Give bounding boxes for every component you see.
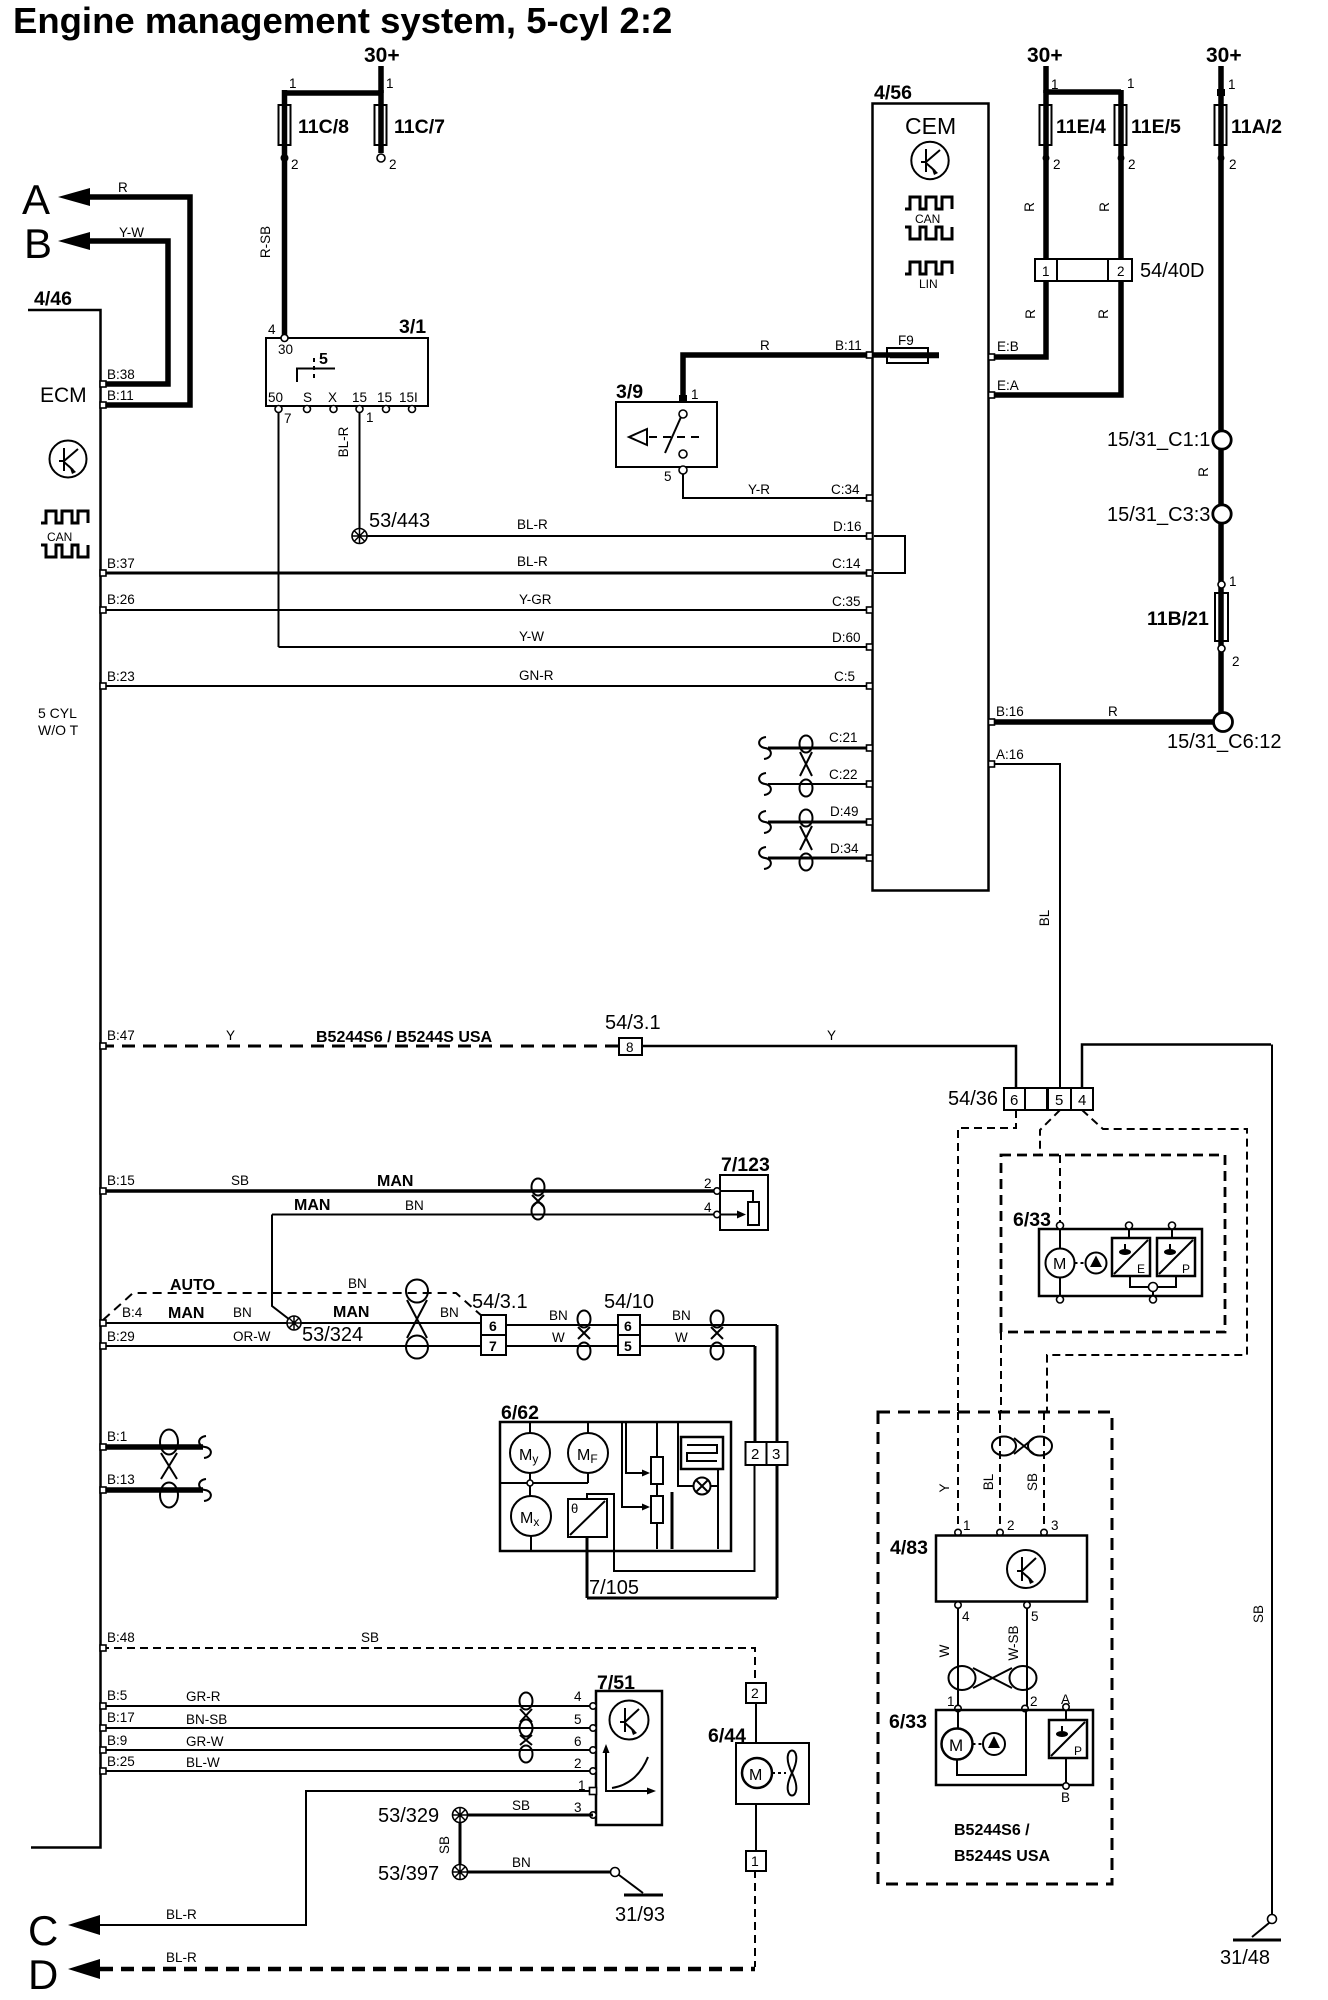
wire BL-R from 53/443 to CEM D:16 (367, 535, 872, 537)
motor M (6/33 lower) (942, 1729, 973, 1760)
svg-text:1: 1 (963, 1518, 971, 1533)
svg-text:Y: Y (226, 1028, 235, 1043)
svg-text:2: 2 (1117, 264, 1125, 279)
wire BN-SB B:17 to 7/51 pin 5 (101, 1727, 593, 1729)
svg-text:BL-R: BL-R (166, 1907, 197, 1922)
svg-text:B:29: B:29 (107, 1329, 135, 1344)
svg-text:Y-W: Y-W (519, 629, 544, 644)
svg-text:A: A (1061, 1692, 1070, 1707)
svg-text:2: 2 (751, 1685, 759, 1701)
svg-text:B:13: B:13 (107, 1472, 135, 1487)
svg-text:B:9: B:9 (107, 1733, 127, 1748)
CAN symbol (CEM) (905, 197, 952, 239)
fuse 11A/2 (1215, 105, 1227, 145)
pin 2 of 11B/21 (1218, 645, 1225, 652)
svg-text:B:1: B:1 (107, 1429, 127, 1444)
svg-text:B:37: B:37 (107, 556, 135, 571)
svg-text:30+: 30+ (1027, 44, 1063, 67)
svg-text:31/93: 31/93 (615, 1904, 665, 1926)
svg-text:SB: SB (231, 1173, 249, 1188)
svg-text:1: 1 (691, 387, 699, 402)
svg-text:2: 2 (1030, 1694, 1038, 1709)
svg-text:3/1: 3/1 (399, 316, 426, 338)
svg-text:BN: BN (672, 1308, 691, 1323)
wire B:13 (twisted stub) (101, 1487, 203, 1493)
svg-text:5: 5 (1055, 1092, 1063, 1109)
svg-text:3: 3 (772, 1446, 780, 1463)
svg-text:3: 3 (574, 1800, 582, 1815)
E:B E:A pins (989, 354, 995, 360)
wire BN 53/397 to ground 31/93 (467, 1871, 610, 1874)
wire pin 2 to theta (top) (587, 1465, 755, 1571)
wire through fuse 11C/7 to pin 2 (378, 90, 384, 153)
node 53/329 (453, 1808, 468, 1823)
wire internal loop D:16 to C:14 (874, 536, 905, 573)
relay module 4/83 (955, 1529, 961, 1535)
svg-text:CEM: CEM (905, 113, 956, 139)
svg-text:11B/21: 11B/21 (1147, 608, 1209, 630)
svg-text:θ: θ (571, 1501, 578, 1516)
wire R from A to ECM B:11 (88, 197, 190, 405)
svg-text:M: M (749, 1767, 762, 1784)
svg-text:MAN: MAN (168, 1305, 204, 1322)
wire SB B:15 MAN to 7/123 pin 2 (101, 1189, 717, 1193)
svg-text:11E/4: 11E/4 (1056, 116, 1106, 138)
svg-text:30+: 30+ (1206, 44, 1242, 67)
connector pin 1 of 6/44 (746, 1851, 766, 1871)
svg-text:BN: BN (233, 1305, 252, 1320)
svg-text:R: R (1196, 467, 1211, 477)
svg-text:53/443: 53/443 (369, 510, 430, 532)
svg-text:B:38: B:38 (107, 367, 135, 382)
wire W 54/10 to 6/62 pin 2 (640, 1345, 755, 1347)
dashed stub 6/44 pin1 to D wire (754, 1870, 756, 1967)
motor Mx (511, 1496, 551, 1536)
wire BL-R B:37 to CEM C:14 (101, 572, 872, 575)
svg-text:4: 4 (704, 1200, 712, 1215)
svg-text:R: R (1096, 309, 1111, 319)
svg-text:1: 1 (386, 76, 394, 91)
svg-text:15/31_C3:3: 15/31_C3:3 (1107, 504, 1210, 526)
svg-text:54/3.1: 54/3.1 (605, 1012, 661, 1034)
svg-text:Y-GR: Y-GR (519, 592, 552, 607)
svg-text:4/83: 4/83 (890, 1537, 928, 1559)
svg-text:BL-R: BL-R (166, 1950, 197, 1965)
motor M (6/33 upper) (1046, 1249, 1075, 1278)
characteristic curve icon (7/51) (606, 1750, 650, 1791)
svg-text:BL: BL (981, 1473, 996, 1490)
svg-text:C:21: C:21 (829, 730, 858, 745)
svg-text:B:23: B:23 (107, 669, 135, 684)
svg-text:BN: BN (405, 1198, 424, 1213)
svg-text:X: X (328, 390, 337, 405)
wire MAN B:4 to 54/3.1 pin 6 (101, 1322, 481, 1324)
twisted pair C:21/C:22 (800, 736, 813, 797)
svg-text:CAN: CAN (47, 530, 72, 544)
wire Y-W from 3/1 pin 50 to CEM D:60 (279, 646, 873, 648)
svg-text:4: 4 (1078, 1092, 1086, 1109)
svg-text:15: 15 (377, 390, 392, 405)
ignition symbol (4/83) (1007, 1550, 1045, 1588)
pump symbol (6/33 lower) (983, 1733, 1005, 1755)
connector 54/40D (1035, 259, 1132, 281)
svg-text:E:A: E:A (997, 378, 1019, 393)
wire GN-R B:23 to CEM C:5 (101, 685, 872, 687)
twisted pair BL/SB (horizontal) (992, 1437, 1052, 1456)
svg-text:4: 4 (268, 322, 276, 337)
svg-text:2: 2 (574, 1756, 582, 1771)
svg-text:BN: BN (512, 1855, 531, 1870)
fuse 11E/5 (1115, 105, 1127, 145)
svg-text:SB: SB (1251, 1605, 1266, 1623)
svg-text:B:5: B:5 (107, 1688, 127, 1703)
node 53/443 (352, 529, 367, 544)
pin B (1065, 1758, 1067, 1783)
wire SB 53/329 to 53/397 (459, 1822, 462, 1866)
level sender E (6/33 upper) (1112, 1238, 1150, 1276)
svg-text:5: 5 (319, 351, 328, 368)
svg-text:7/123: 7/123 (721, 1154, 770, 1176)
svg-text:B5244S6 /: B5244S6 / (954, 1822, 1030, 1839)
svg-text:6: 6 (624, 1318, 632, 1334)
wire 6/44 to pin 1 (755, 1804, 757, 1851)
wire through 11E/5 down to E:A (990, 90, 1121, 395)
harness break D:49 (759, 811, 771, 833)
svg-text:BN: BN (549, 1308, 568, 1323)
wire SB 53/329 to 7/51 pin 3 (467, 1814, 593, 1817)
wire split to 11C/8 (285, 90, 382, 96)
wire pin 3 to theta (bottom) 7/105 (587, 1465, 777, 1598)
twisted pair D:49/D:34 (800, 810, 813, 871)
level sender P (6/33 lower) (1049, 1720, 1087, 1758)
svg-text:1: 1 (947, 1694, 955, 1709)
svg-text:3/9: 3/9 (616, 381, 643, 403)
wire through 11E/4 down to E:B (990, 90, 1046, 357)
svg-text:8: 8 (626, 1040, 634, 1055)
svg-text:11A/2: 11A/2 (1231, 116, 1282, 138)
svg-text:5: 5 (574, 1712, 582, 1727)
svg-text:15I: 15I (399, 390, 418, 405)
wire B:1 (twisted stub) (101, 1444, 203, 1450)
svg-text:AUTO: AUTO (170, 1277, 215, 1294)
svg-text:SB: SB (1025, 1473, 1040, 1491)
svg-text:LIN: LIN (919, 277, 938, 291)
pin 2 of 11C/8 (junction dot) (281, 154, 289, 162)
svg-text:C:5: C:5 (834, 669, 855, 684)
wire from 7/51 pin 1 to arrow C (98, 1791, 589, 1925)
ignition symbol (CEM) (911, 142, 948, 179)
3/9 internals: arrow + dashed + blade (629, 429, 647, 445)
svg-text:4/56: 4/56 (874, 82, 912, 104)
wire 30+ down to fuse split (378, 66, 384, 93)
svg-text:6/33: 6/33 (889, 1711, 927, 1733)
svg-text:D:34: D:34 (830, 841, 859, 856)
harness break D:34 (759, 847, 771, 869)
svg-text:R: R (1108, 704, 1118, 719)
svg-text:2: 2 (1128, 157, 1136, 172)
fuse 11E/4 (1040, 105, 1052, 145)
variable resistor 2 (656, 1484, 658, 1496)
dashed wire BL to 4/83 pin 2 (999, 1412, 1001, 1529)
svg-text:2: 2 (704, 1176, 712, 1191)
svg-text:BL-R: BL-R (336, 426, 351, 457)
svg-text:GR-R: GR-R (186, 1689, 221, 1704)
svg-text:C:34: C:34 (831, 482, 860, 497)
svg-text:6: 6 (574, 1734, 582, 1749)
svg-text:B5244S6 / B5244S USA: B5244S6 / B5244S USA (316, 1029, 493, 1046)
wire W-SB 4/83 pin5 to 6/33 pin2 (1026, 1608, 1028, 1706)
B5244S6 variant enclosure (dashed) (878, 1412, 1112, 1884)
fuse 11B/21 (1215, 593, 1228, 641)
svg-text:P: P (1074, 1744, 1082, 1758)
svg-text:ECM: ECM (40, 384, 87, 407)
relay switch symbol (297, 369, 335, 383)
twisted pair MAN wires (532, 1179, 545, 1220)
wire Y-W from B to ECM B:38 (88, 241, 168, 384)
svg-text:53/397: 53/397 (378, 1863, 439, 1885)
svg-text:31/48: 31/48 (1220, 1947, 1270, 1969)
wire GR-W B:9 to 7/51 pin 6 (101, 1749, 593, 1751)
svg-text:M: M (949, 1736, 963, 1755)
svg-text:1: 1 (289, 76, 297, 91)
wire BL-W B:25 to 7/51 pin 2 (101, 1770, 593, 1772)
svg-text:B:11: B:11 (835, 338, 862, 353)
svg-text:54/40D: 54/40D (1140, 260, 1205, 282)
dashed wire 6/33 M pin feed (1059, 1155, 1061, 1223)
wire W 54/3.1 to 54/10 (506, 1345, 618, 1347)
wire B:48 SB (dashed) (101, 1648, 755, 1683)
svg-text:15/31_C1:1: 15/31_C1:1 (1107, 429, 1210, 451)
svg-text:F9: F9 (898, 333, 914, 348)
svg-text:W: W (552, 1330, 565, 1345)
pin 1 of 11B/21 (1218, 581, 1225, 588)
svg-text:SB: SB (361, 1630, 379, 1645)
svg-text:1: 1 (366, 410, 374, 425)
svg-text:Y: Y (937, 1483, 952, 1492)
twisted pair B:1/B:13 (160, 1430, 178, 1508)
svg-text:R: R (118, 180, 128, 195)
ignition symbol (7/51) (610, 1701, 649, 1740)
svg-text:3: 3 (1051, 1518, 1059, 1533)
ECM pins B:38 B:11 (100, 381, 106, 387)
wire Y-GR B:26 to CEM C:35 (101, 609, 872, 611)
svg-text:2: 2 (1232, 654, 1240, 669)
wire D:49 (twisted) (768, 821, 872, 824)
wire BN MAN to 7/123 pin 4 (272, 1214, 717, 1216)
3/9 pin 1 (679, 395, 687, 402)
svg-text:54/3.1: 54/3.1 (472, 1291, 528, 1313)
svg-text:MAN: MAN (377, 1173, 413, 1190)
motor MF (568, 1433, 608, 1473)
fuse 11C/7 (375, 105, 387, 145)
LIN symbol (CEM) (905, 262, 952, 291)
pump symbol (6/33 upper) (1086, 1253, 1107, 1274)
svg-text:2: 2 (751, 1446, 759, 1463)
wire Y-R from 3/9 pin 5 to CEM C:34 (683, 474, 872, 498)
svg-text:BL-R: BL-R (517, 554, 548, 569)
svg-text:A:16: A:16 (996, 747, 1024, 762)
twisted pair W/W-SB (horizontal) (949, 1666, 1037, 1690)
svg-text:4: 4 (574, 1689, 582, 1704)
connector pin 2 of 6/44 (746, 1683, 766, 1703)
fuse 11C/8 (279, 105, 291, 145)
svg-text:Y-W: Y-W (119, 225, 144, 240)
svg-text:7: 7 (284, 411, 292, 426)
svg-text:B:47: B:47 (107, 1028, 135, 1043)
svg-text:R: R (1097, 202, 1112, 212)
svg-text:6: 6 (489, 1318, 497, 1334)
wire GR-R B:5 to 7/51 pin 4 (101, 1705, 593, 1707)
svg-text:GN-R: GN-R (519, 668, 554, 683)
svg-text:D:16: D:16 (833, 519, 862, 534)
svg-text:4/46: 4/46 (34, 288, 72, 310)
svg-text:54/10: 54/10 (604, 1291, 654, 1313)
svg-text:C:14: C:14 (832, 556, 861, 571)
svg-text:GR-W: GR-W (186, 1734, 224, 1749)
svg-text:BN-SB: BN-SB (186, 1712, 227, 1727)
wire W 4/83 pin4 to 6/33 pin1 (957, 1608, 959, 1706)
svg-text:1: 1 (1229, 574, 1237, 589)
svg-text:BL: BL (1037, 909, 1052, 926)
wire C:21 (twisted) (768, 747, 872, 750)
wire split to 11E/5 (1046, 89, 1121, 95)
svg-text:5: 5 (624, 1338, 632, 1354)
CAN symbol (ECM) (41, 511, 88, 557)
3/9 pin 5 (679, 466, 687, 474)
svg-text:B:15: B:15 (107, 1173, 135, 1188)
svg-text:1: 1 (1042, 264, 1050, 279)
svg-text:W-SB: W-SB (1006, 1625, 1021, 1660)
wire through fuse 11C/8 down to relay 3/1 pin 30 (282, 90, 288, 336)
svg-text:Y-R: Y-R (748, 482, 770, 497)
wire BN 54/10 to 6/62 pin 3 (640, 1324, 777, 1326)
svg-text:BL-W: BL-W (186, 1755, 220, 1770)
dashed stub 6/33 enclosure to 4/83 pin 2 (1000, 1332, 1002, 1412)
svg-text:D:49: D:49 (830, 804, 859, 819)
svg-text:C:35: C:35 (832, 594, 861, 609)
node 53/397 (453, 1865, 468, 1880)
wire C:22 (twisted) (768, 783, 872, 785)
svg-text:B:4: B:4 (122, 1305, 143, 1320)
wire D:34 (twisted) (768, 857, 872, 860)
svg-text:W: W (937, 1644, 952, 1657)
twisted pairs B:5/B:17/B:9 (520, 1693, 533, 1763)
svg-text:C: C (28, 1907, 58, 1954)
svg-text:OR-W: OR-W (233, 1329, 271, 1344)
4/83 pins 4/5 (955, 1602, 961, 1608)
node 53/324 (287, 1316, 301, 1330)
pin 30 circle (281, 335, 288, 342)
svg-text:P: P (1182, 1262, 1190, 1276)
wire pin2 to 6/44 (755, 1703, 757, 1743)
svg-text:W: W (675, 1330, 688, 1345)
ignition symbol (ECM) (50, 441, 87, 478)
svg-text:B:11: B:11 (107, 388, 134, 403)
wire 30+ down through 11A/2 to 15/31_C6:12 (1218, 66, 1224, 713)
svg-text:6: 6 (1010, 1092, 1018, 1109)
bottom pins (275, 406, 282, 413)
7/123 internal resistor (720, 1191, 753, 1202)
wire B:47 Y (dashed, B5244S6 variant) (101, 1045, 619, 1048)
ground 31/93 (611, 1868, 620, 1877)
svg-text:B: B (24, 220, 52, 267)
svg-text:1: 1 (1127, 76, 1135, 91)
variable resistor 1 (656, 1422, 658, 1457)
temp sensor theta (568, 1499, 607, 1537)
svg-text:D:60: D:60 (832, 630, 861, 645)
svg-text:6/62: 6/62 (501, 1402, 539, 1424)
wire BL-R (dashed) from D to 6/44 pin 1 (100, 1967, 755, 1972)
svg-text:2: 2 (1007, 1518, 1015, 1533)
svg-text:11E/5: 11E/5 (1131, 116, 1181, 138)
svg-text:B:16: B:16 (996, 704, 1024, 719)
svg-text:W/O T: W/O T (38, 722, 79, 738)
connector 15/31_C6:12 (1214, 713, 1233, 732)
svg-text:R: R (760, 338, 770, 353)
svg-text:50: 50 (268, 390, 283, 405)
svg-text:5 CYL: 5 CYL (38, 705, 77, 721)
svg-text:CAN: CAN (915, 212, 940, 226)
svg-text:2: 2 (1229, 157, 1237, 172)
svg-text:15: 15 (352, 390, 367, 405)
svg-text:15/31_C6:12: 15/31_C6:12 (1167, 731, 1282, 753)
svg-text:53/329: 53/329 (378, 1805, 439, 1827)
wire AUTO (dashed) from B:4 to 54/3.1 pin 6 (103, 1293, 483, 1320)
svg-text:B:25: B:25 (107, 1754, 135, 1769)
svg-text:11C/8: 11C/8 (298, 116, 349, 138)
svg-text:1: 1 (1051, 77, 1059, 92)
svg-text:B: B (1061, 1790, 1070, 1805)
twisted pair AUTO/OR-W (406, 1280, 428, 1359)
svg-text:1: 1 (751, 1853, 759, 1869)
wire B:16 R to 15/31_C6:12 (990, 719, 1218, 725)
svg-text:MAN: MAN (294, 1197, 330, 1214)
svg-text:SB: SB (512, 1798, 530, 1813)
svg-text:2: 2 (389, 157, 397, 172)
dashed wire 54/36 pin 6 to 4/83 pin 1 (958, 1110, 1016, 1412)
svg-text:R: R (1023, 309, 1038, 319)
svg-text:B:26: B:26 (107, 592, 135, 607)
svg-text:5: 5 (1031, 1609, 1039, 1624)
svg-text:BN: BN (348, 1276, 367, 1291)
heater element grid (681, 1437, 723, 1469)
harness break B:13 (199, 1479, 211, 1501)
svg-text:R-SB: R-SB (258, 226, 273, 258)
CEM left edge pins (867, 352, 873, 358)
pin 2 of 11C/7 (open end) (377, 154, 385, 162)
svg-text:C:22: C:22 (829, 767, 858, 782)
wire BN 54/3.1 to 54/10 (506, 1324, 618, 1326)
svg-text:54/36: 54/36 (948, 1088, 998, 1110)
heater feed (678, 1422, 694, 1486)
svg-text:6/33: 6/33 (1013, 1209, 1051, 1231)
svg-text:7/105: 7/105 (589, 1577, 639, 1599)
svg-text:Y: Y (827, 1028, 836, 1043)
wire from 3/1 pin 50 down to Y-W line (278, 412, 280, 647)
svg-text:M: M (1053, 1256, 1066, 1273)
svg-text:BN: BN (440, 1305, 459, 1320)
dashed wire 54/36 pin 4 to 4/83 pin 3 (1047, 1110, 1247, 1412)
svg-text:B:48: B:48 (107, 1630, 135, 1645)
svg-text:53/324: 53/324 (302, 1324, 363, 1346)
svg-text:R: R (1022, 202, 1037, 212)
svg-text:11C/7: 11C/7 (394, 116, 445, 138)
svg-text:S: S (303, 390, 312, 405)
harness break B:1 (199, 1436, 211, 1458)
wire from 3/1 pin 15 down to node 53/443 (359, 412, 361, 536)
harness break C:22 (759, 773, 771, 795)
svg-text:2: 2 (291, 157, 299, 172)
